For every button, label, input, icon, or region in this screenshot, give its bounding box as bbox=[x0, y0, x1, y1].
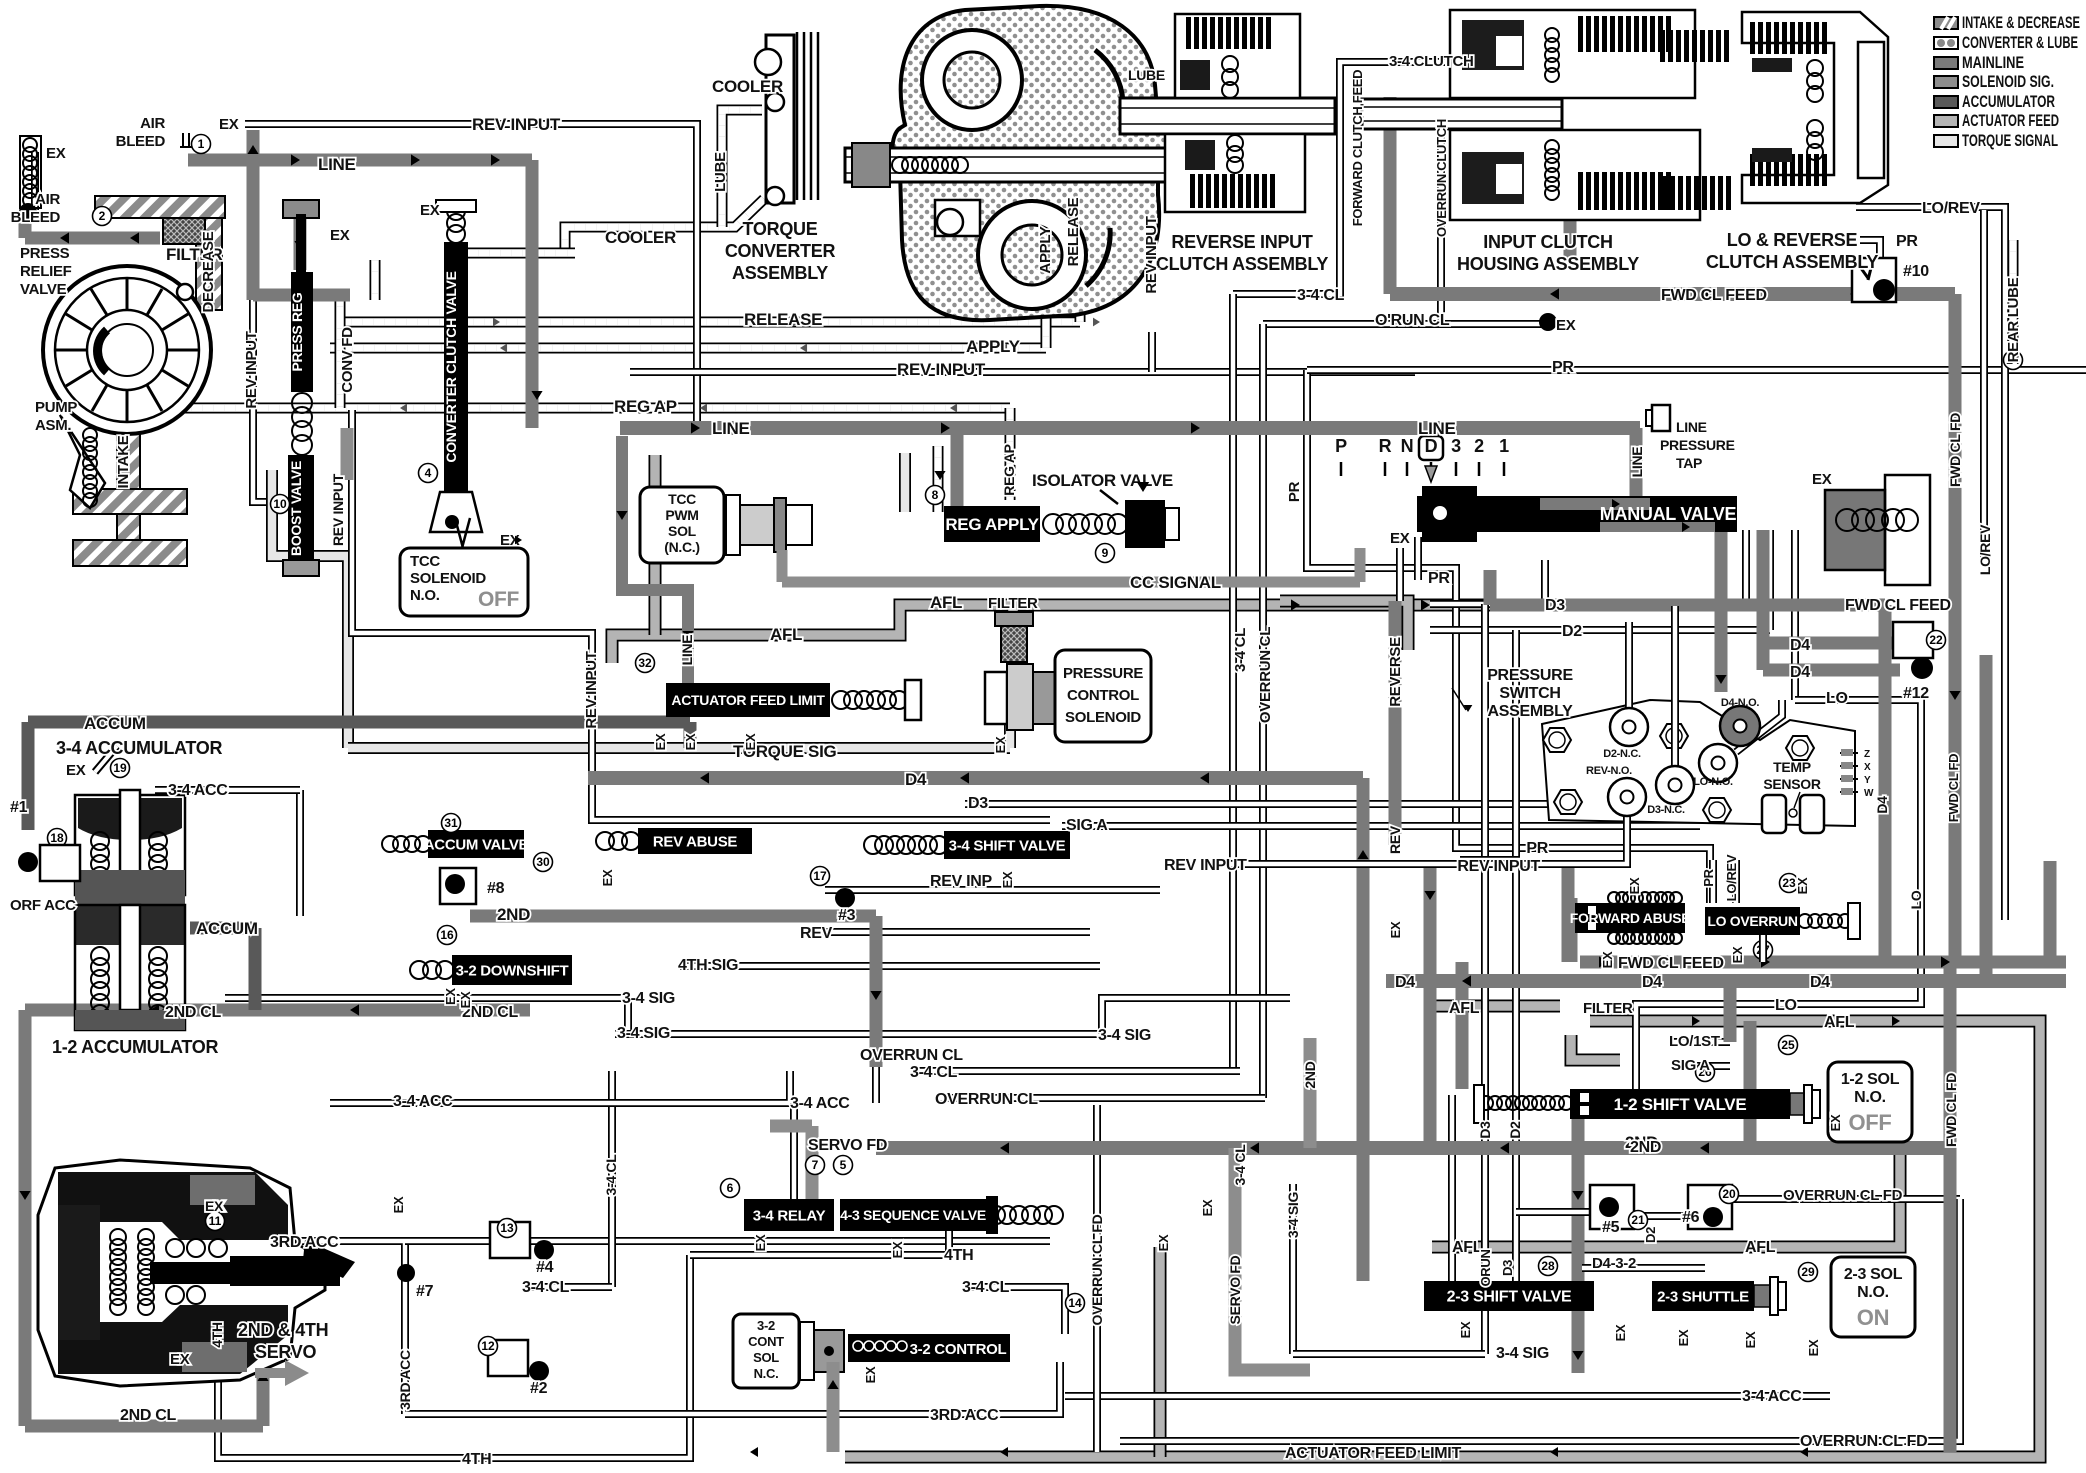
svg-text:3-4 ACC: 3-4 ACC bbox=[1742, 1388, 1802, 1405]
svg-text:EX: EX bbox=[1458, 1321, 1473, 1338]
svg-text:LO-N.O.: LO-N.O. bbox=[1693, 776, 1733, 788]
svg-text:PR: PR bbox=[1286, 481, 1303, 502]
svg-text:7: 7 bbox=[812, 1158, 819, 1172]
svg-text:20: 20 bbox=[1722, 1187, 1736, 1201]
svg-text:3-4 CLUTCH: 3-4 CLUTCH bbox=[1389, 53, 1474, 70]
svg-text:EX: EX bbox=[683, 733, 698, 750]
svg-text:FWD CL FD: FWD CL FD bbox=[1947, 413, 1963, 487]
svg-text:R: R bbox=[1379, 436, 1392, 456]
svg-text:COOLER: COOLER bbox=[712, 77, 783, 96]
svg-text:EX: EX bbox=[1828, 1114, 1843, 1131]
svg-text:PWM: PWM bbox=[665, 507, 698, 523]
svg-text:CC SIGNAL: CC SIGNAL bbox=[1130, 573, 1221, 592]
svg-text:LO: LO bbox=[1908, 890, 1924, 909]
svg-text:ACCUMULATOR: ACCUMULATOR bbox=[1962, 93, 2055, 111]
svg-text:N.C.: N.C. bbox=[754, 1366, 779, 1381]
svg-text:EX: EX bbox=[205, 1198, 224, 1214]
svg-text:8: 8 bbox=[932, 488, 939, 502]
svg-text:REV INPUT: REV INPUT bbox=[897, 360, 986, 379]
svg-text:N.O.: N.O. bbox=[1854, 1089, 1886, 1106]
svg-text:D: D bbox=[1425, 436, 1438, 456]
svg-text:2-3 SOL: 2-3 SOL bbox=[1844, 1266, 1903, 1283]
svg-text:FILTER: FILTER bbox=[988, 595, 1038, 612]
svg-text:REG AP: REG AP bbox=[1001, 444, 1017, 495]
svg-text:3-4 SHIFT VALVE: 3-4 SHIFT VALVE bbox=[949, 837, 1066, 854]
svg-text:ASSEMBLY: ASSEMBLY bbox=[1487, 703, 1573, 720]
svg-text:3: 3 bbox=[1451, 436, 1461, 456]
svg-text:EX: EX bbox=[330, 227, 350, 244]
svg-text:PRESS: PRESS bbox=[20, 245, 70, 262]
svg-text:INTAKE: INTAKE bbox=[115, 435, 132, 488]
svg-text:3-4 CL: 3-4 CL bbox=[962, 1279, 1010, 1296]
svg-text:EX: EX bbox=[420, 202, 440, 219]
svg-text:EX: EX bbox=[1795, 877, 1810, 894]
svg-text:#2: #2 bbox=[530, 1380, 548, 1397]
svg-text:BLEED: BLEED bbox=[11, 209, 61, 226]
svg-text:D3: D3 bbox=[1545, 597, 1565, 614]
svg-text:TAP: TAP bbox=[1676, 455, 1702, 471]
svg-text:OVERRUN CL FD: OVERRUN CL FD bbox=[1800, 1433, 1927, 1450]
svg-text:LO: LO bbox=[1775, 997, 1797, 1014]
svg-text:LUBE: LUBE bbox=[1128, 67, 1165, 83]
svg-text:D4: D4 bbox=[1790, 664, 1810, 681]
svg-text:17: 17 bbox=[813, 869, 827, 883]
svg-text:TCC: TCC bbox=[410, 553, 440, 570]
svg-text:D2-N.C.: D2-N.C. bbox=[1603, 748, 1641, 760]
svg-text:RELEASE: RELEASE bbox=[1065, 197, 1082, 266]
svg-text:3-4 ACC: 3-4 ACC bbox=[393, 1093, 453, 1110]
svg-text:PR: PR bbox=[1896, 233, 1918, 250]
svg-text:2: 2 bbox=[1474, 436, 1484, 456]
svg-text:REV INPUT: REV INPUT bbox=[1143, 216, 1160, 293]
svg-text:ORUN: ORUN bbox=[1478, 1249, 1493, 1286]
svg-text:CONV FD: CONV FD bbox=[339, 327, 356, 393]
svg-text:EX: EX bbox=[443, 988, 458, 1005]
svg-text:REV ABUSE: REV ABUSE bbox=[653, 833, 738, 850]
svg-text:APPLY: APPLY bbox=[966, 337, 1021, 356]
svg-text:(N.C.): (N.C.) bbox=[664, 539, 700, 555]
svg-text:AFL: AFL bbox=[1745, 1239, 1776, 1256]
svg-text:REVERSE INPUT: REVERSE INPUT bbox=[1171, 232, 1312, 252]
svg-text:LINE: LINE bbox=[712, 419, 750, 438]
svg-text:EX: EX bbox=[1627, 877, 1642, 894]
svg-text:LUBE: LUBE bbox=[712, 152, 729, 192]
svg-text:LINE: LINE bbox=[679, 635, 695, 666]
svg-text:ORF ACC: ORF ACC bbox=[10, 897, 76, 914]
svg-text:13: 13 bbox=[500, 1221, 514, 1235]
svg-text:EX: EX bbox=[1556, 317, 1576, 334]
svg-text:PRESSURE: PRESSURE bbox=[1487, 667, 1573, 684]
svg-text:REV: REV bbox=[800, 925, 833, 942]
svg-text:EX: EX bbox=[1613, 1324, 1628, 1341]
svg-text:#12: #12 bbox=[1903, 685, 1929, 702]
svg-text:OVERRUN CL: OVERRUN CL bbox=[860, 1047, 963, 1064]
svg-text:INPUT CLUTCH: INPUT CLUTCH bbox=[1483, 232, 1612, 252]
svg-text:EX: EX bbox=[743, 733, 758, 750]
svg-text:4: 4 bbox=[425, 466, 432, 480]
svg-text:N.O.: N.O. bbox=[410, 587, 440, 604]
svg-text:LO & REVERSE: LO & REVERSE bbox=[1727, 230, 1858, 250]
svg-text:10: 10 bbox=[273, 497, 287, 511]
svg-text:OVERRUN CL: OVERRUN CL bbox=[935, 1091, 1038, 1108]
svg-text:EX: EX bbox=[1390, 530, 1410, 547]
svg-text:EX: EX bbox=[170, 1351, 190, 1368]
svg-text:3-4 SIG: 3-4 SIG bbox=[617, 1025, 670, 1042]
svg-text:REV INPUT: REV INPUT bbox=[583, 651, 600, 728]
svg-text:VALVE: VALVE bbox=[20, 281, 67, 298]
svg-text:AFL: AFL bbox=[930, 593, 962, 612]
svg-text:ACTUATOR FEED LIMIT: ACTUATOR FEED LIMIT bbox=[1285, 1445, 1461, 1462]
svg-text:SERVO FD: SERVO FD bbox=[808, 1137, 887, 1154]
svg-text:#3: #3 bbox=[838, 907, 856, 924]
svg-text:3-2 DOWNSHIFT: 3-2 DOWNSHIFT bbox=[456, 962, 569, 979]
svg-text:COOLER: COOLER bbox=[605, 228, 676, 247]
svg-text:1: 1 bbox=[1499, 436, 1509, 456]
svg-text:CLUTCH ASSEMBLY: CLUTCH ASSEMBLY bbox=[1156, 254, 1328, 274]
svg-text:3-4 SIG: 3-4 SIG bbox=[1098, 1027, 1151, 1044]
svg-text:Y: Y bbox=[1864, 775, 1871, 786]
svg-text:1: 1 bbox=[198, 137, 205, 151]
svg-text:22: 22 bbox=[1929, 633, 1943, 647]
svg-text:3-4 ACC: 3-4 ACC bbox=[168, 782, 228, 799]
svg-text:MAINLINE: MAINLINE bbox=[1962, 54, 2024, 72]
svg-text:BLEED: BLEED bbox=[116, 133, 166, 150]
svg-text:CONVERTER CLUTCH VALVE: CONVERTER CLUTCH VALVE bbox=[443, 271, 459, 462]
svg-text:FORWARD ABUSE: FORWARD ABUSE bbox=[1570, 910, 1691, 926]
svg-text:SOL: SOL bbox=[668, 523, 697, 539]
svg-text:#7: #7 bbox=[416, 1283, 434, 1300]
svg-text:SWITCH: SWITCH bbox=[1499, 685, 1560, 702]
svg-text:LO/REV: LO/REV bbox=[1977, 524, 1993, 575]
svg-text:MANUAL VALVE: MANUAL VALVE bbox=[1600, 504, 1737, 524]
svg-text:LO/REV: LO/REV bbox=[1724, 854, 1739, 901]
svg-text:EX: EX bbox=[1600, 951, 1615, 968]
svg-text:REVERSE: REVERSE bbox=[1387, 637, 1404, 707]
svg-text:PR: PR bbox=[1428, 570, 1450, 587]
svg-text:REV INPUT: REV INPUT bbox=[243, 331, 260, 408]
svg-text:SERVO FD: SERVO FD bbox=[1227, 1255, 1243, 1324]
svg-text:Z: Z bbox=[1864, 749, 1870, 760]
svg-text:3-4 CL: 3-4 CL bbox=[1232, 628, 1249, 672]
svg-text:EX: EX bbox=[1806, 1339, 1821, 1356]
svg-text:OVERRUN CL FD: OVERRUN CL FD bbox=[1783, 1187, 1903, 1204]
svg-text:AFL: AFL bbox=[1824, 1014, 1855, 1031]
svg-text:EX: EX bbox=[1743, 1331, 1758, 1348]
svg-text:14: 14 bbox=[1068, 1296, 1082, 1310]
svg-text:REAR LUBE: REAR LUBE bbox=[2005, 277, 2022, 362]
svg-text:ACCUM: ACCUM bbox=[196, 919, 258, 938]
svg-text:PR: PR bbox=[1526, 840, 1548, 857]
svg-text:2ND: 2ND bbox=[1302, 1061, 1318, 1088]
svg-text:SOLENOID SIG.: SOLENOID SIG. bbox=[1962, 73, 2054, 91]
svg-text:SIG A: SIG A bbox=[1671, 1057, 1710, 1074]
svg-text:3-2 CONTROL: 3-2 CONTROL bbox=[910, 1341, 1007, 1358]
svg-text:5: 5 bbox=[840, 1158, 847, 1172]
svg-text:LINE: LINE bbox=[1418, 419, 1456, 438]
svg-text:EX: EX bbox=[1200, 1199, 1215, 1216]
svg-text:ASSEMBLY: ASSEMBLY bbox=[732, 263, 828, 283]
svg-text:EX: EX bbox=[1730, 946, 1745, 963]
svg-text:EX: EX bbox=[1388, 921, 1403, 938]
svg-text:SERVO: SERVO bbox=[255, 1342, 316, 1362]
svg-text:FWD CL FEED: FWD CL FEED bbox=[1661, 287, 1767, 304]
svg-text:3-4 CL: 3-4 CL bbox=[603, 1154, 619, 1196]
svg-text:DECREASE: DECREASE bbox=[200, 231, 217, 312]
svg-text:3-4 ACCUMULATOR: 3-4 ACCUMULATOR bbox=[56, 738, 222, 758]
svg-text:2ND & 4TH: 2ND & 4TH bbox=[238, 1320, 328, 1340]
svg-text:PRESS REG: PRESS REG bbox=[289, 292, 305, 371]
svg-text:2-3 SHIFT VALVE: 2-3 SHIFT VALVE bbox=[1447, 1289, 1572, 1306]
svg-text:25: 25 bbox=[1781, 1038, 1795, 1052]
svg-text:EX: EX bbox=[391, 1196, 406, 1213]
svg-text:28: 28 bbox=[1541, 1259, 1555, 1273]
svg-text:CLUTCH ASSEMBLY: CLUTCH ASSEMBLY bbox=[1706, 252, 1878, 272]
svg-text:D3-N.C.: D3-N.C. bbox=[1647, 804, 1685, 816]
svg-text:#10: #10 bbox=[1903, 263, 1929, 280]
svg-text:OVERRUN CL FD: OVERRUN CL FD bbox=[1089, 1214, 1105, 1325]
svg-text:REV INPUT: REV INPUT bbox=[472, 115, 561, 134]
svg-text:32: 32 bbox=[638, 656, 652, 670]
svg-text:REV INPUT: REV INPUT bbox=[1457, 858, 1540, 875]
svg-text:LINE: LINE bbox=[1676, 419, 1707, 435]
svg-text:SIG A: SIG A bbox=[1066, 817, 1108, 834]
svg-text:3RD ACC: 3RD ACC bbox=[930, 1407, 999, 1424]
svg-text:4TH: 4TH bbox=[944, 1247, 973, 1264]
svg-text:FWD CL FEED: FWD CL FEED bbox=[1618, 955, 1724, 972]
svg-text:EX: EX bbox=[1156, 1234, 1171, 1251]
svg-text:LO/1ST: LO/1ST bbox=[1669, 1033, 1720, 1050]
svg-text:AFL: AFL bbox=[770, 625, 802, 644]
svg-text:D4: D4 bbox=[1810, 974, 1830, 991]
svg-text:#8: #8 bbox=[487, 880, 505, 897]
svg-text:N: N bbox=[1401, 436, 1414, 456]
svg-text:FWD CL FD: FWD CL FD bbox=[1946, 754, 1961, 823]
svg-text:W: W bbox=[1864, 788, 1874, 799]
svg-text:4TH: 4TH bbox=[462, 1451, 491, 1468]
svg-text:X: X bbox=[1864, 762, 1871, 773]
svg-text:D2: D2 bbox=[1562, 623, 1582, 640]
svg-text:EX: EX bbox=[600, 869, 615, 886]
svg-text:EX: EX bbox=[653, 733, 668, 750]
svg-text:OFF: OFF bbox=[1848, 1110, 1891, 1135]
svg-text:LO: LO bbox=[1826, 690, 1848, 707]
svg-text:D4: D4 bbox=[1874, 796, 1890, 814]
svg-text:3-4 SIG: 3-4 SIG bbox=[1496, 1345, 1549, 1362]
svg-text:REV INPUT: REV INPUT bbox=[1164, 857, 1247, 874]
svg-text:12: 12 bbox=[481, 1339, 495, 1353]
svg-text:D4: D4 bbox=[1642, 974, 1662, 991]
svg-text:ACTUATOR FEED: ACTUATOR FEED bbox=[1962, 112, 2059, 130]
svg-text:#6: #6 bbox=[1682, 1209, 1700, 1226]
svg-text:3-4 SIG: 3-4 SIG bbox=[622, 990, 675, 1007]
svg-text:REV INP: REV INP bbox=[930, 873, 993, 890]
svg-text:REV: REV bbox=[1387, 825, 1403, 854]
svg-text:TEMP: TEMP bbox=[1773, 759, 1811, 775]
svg-text:EX: EX bbox=[890, 1241, 905, 1258]
svg-text:2ND CL: 2ND CL bbox=[165, 1004, 222, 1021]
svg-text:PRESSURE: PRESSURE bbox=[1063, 665, 1143, 682]
svg-text:4TH: 4TH bbox=[209, 1322, 225, 1348]
svg-text:ON: ON bbox=[1857, 1305, 1889, 1330]
svg-text:LINE: LINE bbox=[1629, 447, 1645, 478]
svg-text:D3: D3 bbox=[1500, 1260, 1515, 1276]
svg-text:AIR: AIR bbox=[35, 191, 60, 208]
svg-text:EX: EX bbox=[1000, 871, 1015, 888]
svg-text:D4-N.O.: D4-N.O. bbox=[1721, 697, 1759, 709]
svg-text:2ND: 2ND bbox=[1630, 1139, 1661, 1156]
svg-text:REG AP: REG AP bbox=[614, 397, 677, 416]
svg-text:EX: EX bbox=[863, 1366, 878, 1383]
svg-text:PUMP: PUMP bbox=[35, 399, 77, 416]
svg-text:D3: D3 bbox=[968, 795, 988, 812]
svg-text:29: 29 bbox=[1801, 1265, 1815, 1279]
svg-text:#5: #5 bbox=[1602, 1219, 1620, 1236]
svg-text:CONVERTER: CONVERTER bbox=[725, 241, 836, 261]
svg-text:INTAKE & DECREASE: INTAKE & DECREASE bbox=[1962, 14, 2080, 32]
svg-text:2: 2 bbox=[99, 209, 106, 223]
svg-text:SOLENOID: SOLENOID bbox=[410, 570, 486, 587]
svg-text:REV INPUT: REV INPUT bbox=[330, 473, 346, 546]
svg-text:1-2 ACCUMULATOR: 1-2 ACCUMULATOR bbox=[52, 1037, 218, 1057]
svg-text:D4: D4 bbox=[905, 770, 927, 789]
svg-text:3-4 RELAY: 3-4 RELAY bbox=[753, 1207, 826, 1224]
svg-text:D2: D2 bbox=[1643, 1227, 1658, 1243]
svg-text:1-2 SOL: 1-2 SOL bbox=[1841, 1071, 1900, 1088]
svg-text:19: 19 bbox=[113, 761, 127, 775]
svg-text:PR: PR bbox=[1552, 359, 1574, 376]
svg-text:FILTER: FILTER bbox=[1583, 1000, 1633, 1017]
svg-text:O'RUN CL: O'RUN CL bbox=[1375, 312, 1450, 329]
svg-text:11: 11 bbox=[209, 1214, 222, 1228]
svg-text:N.O.: N.O. bbox=[1857, 1284, 1889, 1301]
svg-text:3-4 CL: 3-4 CL bbox=[1297, 287, 1345, 304]
svg-text:EX: EX bbox=[219, 116, 239, 133]
svg-text:1-2 SHIFT VALVE: 1-2 SHIFT VALVE bbox=[1614, 1095, 1747, 1114]
svg-text:EX: EX bbox=[66, 762, 86, 779]
svg-text:6: 6 bbox=[727, 1181, 734, 1195]
svg-text:LINE: LINE bbox=[318, 155, 356, 174]
svg-text:EX: EX bbox=[753, 1234, 768, 1251]
svg-text:TCC: TCC bbox=[668, 491, 696, 507]
svg-text:FWD CL FEED: FWD CL FEED bbox=[1845, 597, 1951, 614]
svg-text:CONT: CONT bbox=[748, 1334, 784, 1349]
svg-text:3RD ACC: 3RD ACC bbox=[270, 1234, 339, 1251]
svg-text:EX: EX bbox=[1812, 471, 1832, 488]
svg-text:4TH SIG: 4TH SIG bbox=[678, 957, 738, 974]
svg-text:3-4 CL: 3-4 CL bbox=[1232, 1144, 1248, 1186]
svg-text:23: 23 bbox=[1782, 876, 1796, 890]
svg-text:P: P bbox=[1335, 436, 1347, 456]
svg-text:EX: EX bbox=[993, 736, 1008, 753]
svg-text:REV-N.O.: REV-N.O. bbox=[1586, 765, 1632, 777]
svg-text:FWD CL FD: FWD CL FD bbox=[1943, 1073, 1959, 1147]
svg-text:EX: EX bbox=[458, 991, 473, 1008]
svg-text:9: 9 bbox=[1102, 546, 1109, 560]
svg-text:21: 21 bbox=[1631, 1213, 1645, 1227]
svg-text:ACCUM VALVE: ACCUM VALVE bbox=[424, 836, 529, 853]
svg-text:#1: #1 bbox=[10, 799, 28, 816]
svg-text:REG APPLY: REG APPLY bbox=[945, 515, 1039, 534]
svg-text:D2: D2 bbox=[1507, 1121, 1523, 1139]
svg-text:RELEASE: RELEASE bbox=[744, 310, 822, 329]
svg-text:2ND CL: 2ND CL bbox=[120, 1407, 177, 1424]
svg-text:EX: EX bbox=[1676, 1329, 1691, 1346]
svg-text:RELIEF: RELIEF bbox=[20, 263, 72, 280]
svg-text:3-2: 3-2 bbox=[757, 1318, 775, 1333]
svg-text:16: 16 bbox=[440, 928, 454, 942]
svg-text:OVERRUN CLUTCH: OVERRUN CLUTCH bbox=[1434, 119, 1449, 237]
svg-text:PRESSURE: PRESSURE bbox=[1660, 437, 1735, 453]
svg-text:ACTUATOR FEED LIMIT: ACTUATOR FEED LIMIT bbox=[671, 692, 825, 708]
svg-text:ACCUM: ACCUM bbox=[84, 714, 146, 733]
svg-text:PR: PR bbox=[1701, 868, 1716, 886]
svg-text:3-4 CL: 3-4 CL bbox=[910, 1064, 958, 1081]
svg-text:TORQUE: TORQUE bbox=[743, 219, 818, 239]
svg-text:3-4 ACC: 3-4 ACC bbox=[790, 1095, 850, 1112]
svg-text:D4-3-2: D4-3-2 bbox=[1592, 1255, 1636, 1272]
svg-text:CONVERTER & LUBE: CONVERTER & LUBE bbox=[1962, 34, 2078, 52]
svg-text:D3: D3 bbox=[1477, 1121, 1493, 1139]
svg-text:SENSOR: SENSOR bbox=[1763, 776, 1821, 792]
svg-text:LO OVERRUN: LO OVERRUN bbox=[1707, 913, 1798, 929]
svg-text:LO/REV: LO/REV bbox=[1922, 200, 1980, 217]
svg-text:BOOST VALVE: BOOST VALVE bbox=[288, 461, 304, 556]
svg-text:3-4 SIG: 3-4 SIG bbox=[1285, 1192, 1301, 1239]
svg-text:ISOLATOR VALVE: ISOLATOR VALVE bbox=[1032, 471, 1173, 490]
svg-text:OFF: OFF bbox=[478, 588, 520, 611]
svg-text:3-4 CL: 3-4 CL bbox=[522, 1279, 570, 1296]
svg-text:CONTROL: CONTROL bbox=[1067, 687, 1139, 704]
svg-text:3RD ACC: 3RD ACC bbox=[397, 1350, 413, 1410]
svg-text:SOLENOID: SOLENOID bbox=[1065, 709, 1141, 726]
svg-text:OVERRUN CL: OVERRUN CL bbox=[1257, 627, 1274, 723]
svg-text:AFL: AFL bbox=[1449, 1000, 1480, 1017]
svg-text:ASM.: ASM. bbox=[35, 417, 71, 434]
svg-text:FORWARD CLUTCH FEED: FORWARD CLUTCH FEED bbox=[1350, 70, 1365, 227]
svg-text:#4: #4 bbox=[536, 1259, 554, 1276]
svg-text:18: 18 bbox=[50, 831, 64, 845]
svg-text:D4: D4 bbox=[1395, 974, 1415, 991]
svg-text:APPLY: APPLY bbox=[1037, 226, 1054, 273]
svg-text:TORQUE SIGNAL: TORQUE SIGNAL bbox=[1962, 132, 2058, 150]
svg-text:31: 31 bbox=[444, 816, 458, 830]
svg-text:30: 30 bbox=[536, 855, 550, 869]
svg-text:SOL: SOL bbox=[753, 1350, 779, 1365]
svg-text:4-3 SEQUENCE VALVE: 4-3 SEQUENCE VALVE bbox=[840, 1207, 986, 1223]
svg-text:2-3 SHUTTLE: 2-3 SHUTTLE bbox=[1657, 1288, 1749, 1305]
svg-text:AIR: AIR bbox=[140, 115, 165, 132]
svg-text:2ND: 2ND bbox=[497, 905, 530, 924]
svg-text:D4: D4 bbox=[1790, 637, 1810, 654]
svg-text:HOUSING ASSEMBLY: HOUSING ASSEMBLY bbox=[1457, 254, 1639, 274]
svg-text:EX: EX bbox=[46, 145, 66, 162]
